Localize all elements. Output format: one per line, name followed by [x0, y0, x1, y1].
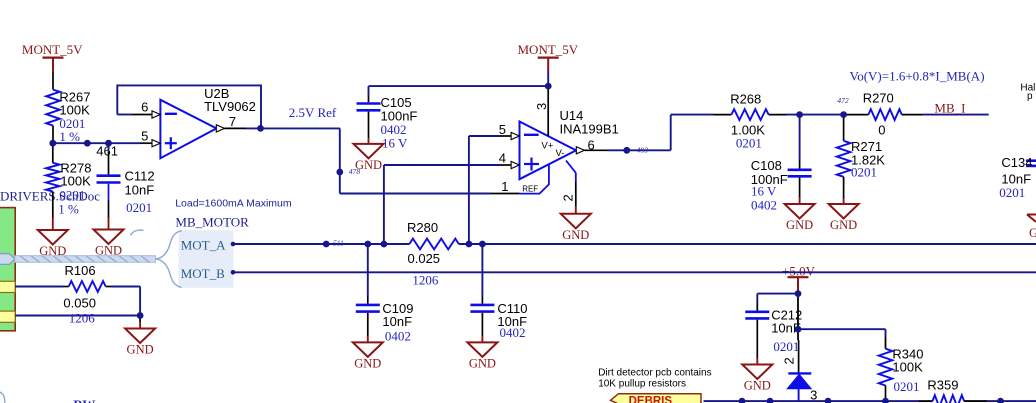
- svg-text:0402: 0402: [500, 325, 526, 340]
- junctions +5.0V net: [795, 290, 802, 332]
- svg-text:MONT_5V: MONT_5V: [518, 42, 579, 57]
- capacitor C112: [97, 143, 155, 229]
- port MOT_A (yellow sheet entry): [0, 281, 15, 292]
- junction C108 top: [796, 111, 803, 118]
- capacitor C134 (cut at edge): [999, 155, 1036, 200]
- ground (C109): [353, 342, 383, 370]
- resistor R271: [837, 115, 886, 204]
- svg-text:GND: GND: [354, 357, 381, 371]
- ground (U14 pin2): [561, 214, 591, 242]
- wire R106 network: [15, 287, 140, 316]
- ground (R278): [38, 230, 68, 258]
- svg-text:3: 3: [534, 103, 549, 110]
- svg-text:GND: GND: [39, 244, 66, 258]
- harness DEBRIS: [611, 394, 702, 403]
- svg-text:GND: GND: [95, 244, 122, 258]
- node 493: [623, 145, 648, 154]
- svg-text:GND: GND: [469, 357, 496, 371]
- junction MONT_5V rail: [545, 83, 552, 90]
- ground (R106): [125, 329, 155, 357]
- capacitor C105: [357, 95, 418, 150]
- svg-text:MB_MOTOR: MB_MOTOR: [175, 215, 249, 230]
- svg-text:1206: 1206: [412, 273, 439, 288]
- svg-text:INA199B1: INA199B1: [560, 122, 619, 137]
- svg-text:R268: R268: [730, 92, 761, 107]
- svg-text:GND: GND: [830, 218, 857, 232]
- wire U14 pin4 to R280 left: [384, 165, 501, 244]
- svg-text:2: 2: [781, 357, 796, 364]
- power port +5.0V: [782, 263, 816, 293]
- junctions bottom net: [739, 398, 1004, 403]
- svg-text:Load=1600mA Maximum: Load=1600mA Maximum: [175, 197, 292, 209]
- svg-text:R270: R270: [863, 90, 894, 105]
- wire 2.5V Ref: U2B out to U14 REF: [246, 128, 490, 193]
- node 511: [323, 239, 344, 248]
- harness connector (bottom-left, cut): [0, 392, 5, 403]
- svg-text:6: 6: [141, 100, 148, 115]
- ground (R271): [829, 204, 859, 232]
- svg-text:RW: RW: [73, 397, 95, 403]
- svg-text:Vo(V)=1.6+0.8*I_MB(A): Vo(V)=1.6+0.8*I_MB(A): [850, 69, 985, 84]
- resistor R268: [714, 92, 787, 151]
- svg-text:0.050: 0.050: [63, 296, 96, 311]
- svg-text:7: 7: [229, 114, 236, 129]
- svg-text:100K: 100K: [60, 173, 91, 188]
- svg-text:0201: 0201: [894, 379, 920, 394]
- node 478: [336, 167, 360, 176]
- op-amp U14 INA199B1: [520, 108, 619, 194]
- svg-text:DEBRIS: DEBRIS: [629, 396, 673, 403]
- wire +5.0V down to diode node: [797, 296, 799, 329]
- ground (C105): [354, 144, 384, 172]
- resistor R340: [879, 346, 924, 401]
- junctions MOT_A row: [364, 241, 485, 248]
- power port MONT_5V (right): [518, 42, 579, 86]
- net label MB_I: [934, 100, 965, 115]
- pin 3 U14: [534, 89, 549, 136]
- svg-text:R106: R106: [65, 263, 96, 278]
- ground (C134, cut): [1027, 215, 1036, 241]
- wire +5.0V to C212: [757, 294, 798, 303]
- pin 5 U2B: [141, 128, 161, 147]
- pin 6 U14 output: [576, 138, 607, 154]
- harness connector MB_MOTOR fan-out: [131, 230, 234, 288]
- svg-text:1: 1: [501, 179, 508, 194]
- svg-text:V+: V+: [541, 141, 553, 152]
- port MOT_B (yellow sheet entry): [0, 311, 15, 322]
- wire R267/R278 junction row to U2B pin5: [53, 142, 141, 144]
- svg-text:511: 511: [333, 239, 344, 248]
- net label 2.5V Ref: [289, 105, 337, 120]
- svg-text:0201: 0201: [851, 165, 877, 180]
- svg-text:6: 6: [588, 138, 595, 153]
- svg-text:100K: 100K: [892, 360, 923, 375]
- svg-text:3: 3: [810, 388, 817, 403]
- svg-text:C108: C108: [751, 158, 782, 173]
- svg-text:2: 2: [560, 194, 575, 201]
- resistor R278: [46, 143, 91, 230]
- svg-text:493: 493: [637, 145, 649, 154]
- svg-text:MOT_A: MOT_A: [181, 238, 226, 253]
- node 472: [837, 96, 849, 118]
- svg-text:MONT_5V: MONT_5V: [22, 42, 83, 57]
- net label MB_MOTOR: [175, 215, 249, 230]
- svg-text:C134: C134: [1001, 155, 1032, 170]
- bus MB_MOTOR (hatched): [15, 256, 156, 263]
- node 461: [96, 144, 118, 159]
- svg-text:0201: 0201: [126, 200, 152, 215]
- svg-text:R280: R280: [407, 220, 438, 235]
- svg-text:0201: 0201: [773, 339, 799, 354]
- wire MB_I from R270: [923, 114, 989, 116]
- ground (C212): [742, 365, 772, 393]
- capacitor C110: [470, 244, 527, 342]
- op-amp U2B TLV9062: [160, 86, 255, 158]
- svg-text:V-: V-: [556, 148, 565, 159]
- resistor R270: [845, 90, 923, 137]
- pin 7 U2B output: [216, 114, 246, 132]
- pin 4 U14: [499, 151, 520, 169]
- net label MOT_B: [181, 266, 236, 281]
- wire U14 pin5 to R280 right: [469, 136, 501, 244]
- annotation Vo formula: [850, 69, 985, 84]
- svg-text:1206: 1206: [69, 310, 96, 325]
- resistor R106: [63, 263, 140, 329]
- net label MOT_A: [181, 238, 236, 253]
- ground (C112): [94, 230, 124, 258]
- svg-text:GND: GND: [744, 379, 771, 393]
- svg-text:GND: GND: [786, 218, 813, 232]
- svg-text:16 V: 16 V: [751, 184, 777, 199]
- resistor R267: [46, 72, 90, 145]
- svg-text:5: 5: [141, 128, 148, 143]
- annotation Load: [175, 197, 292, 209]
- pin 2 U14 to ground: [560, 161, 575, 214]
- capacitor C108: [751, 115, 812, 213]
- wire bottom net: [704, 400, 1036, 402]
- svg-text:MB_I: MB_I: [934, 100, 965, 115]
- diode D (debris detector): [781, 340, 817, 403]
- svg-text:Dirt detector pcb contains: Dirt detector pcb contains: [598, 368, 711, 379]
- svg-text:REF: REF: [522, 184, 538, 193]
- svg-text:472: 472: [837, 96, 849, 105]
- wire node to R340: [798, 329, 886, 349]
- wire diode anode down: [797, 329, 799, 340]
- svg-text:0201: 0201: [59, 188, 85, 203]
- svg-text:MOT_B: MOT_B: [181, 266, 225, 281]
- svg-text:TLV9062: TLV9062: [204, 99, 256, 114]
- svg-text:GND: GND: [127, 343, 154, 357]
- svg-text:10nF: 10nF: [382, 314, 412, 329]
- svg-text:0402: 0402: [385, 328, 411, 343]
- ground (C110): [467, 342, 497, 370]
- svg-text:0402: 0402: [751, 198, 777, 213]
- svg-text:1 %: 1 %: [59, 129, 80, 144]
- wire R268 to R270 rail: [787, 114, 845, 116]
- pin 5 U14: [499, 122, 520, 140]
- sheet symbol DRIVERS.SchDoc: [0, 189, 100, 331]
- svg-text:G: G: [1029, 226, 1036, 240]
- svg-text:5: 5: [499, 122, 506, 137]
- svg-text:0.025: 0.025: [408, 251, 441, 266]
- power port MONT_5V (left): [22, 42, 83, 72]
- wire U2B feedback loop: [117, 85, 261, 128]
- svg-text:0201: 0201: [736, 135, 762, 150]
- junction dots row 461: [49, 140, 112, 147]
- svg-text:R359: R359: [927, 378, 958, 393]
- svg-text:2.5V Ref: 2.5V Ref: [289, 105, 337, 120]
- capacitor C212: [745, 303, 802, 365]
- capacitor C109: [356, 244, 414, 343]
- wire MOT_B: [233, 271, 1036, 273]
- svg-text:p: p: [1027, 91, 1033, 102]
- net label RW (cut): [73, 397, 95, 403]
- bus port MB_MOTOR (sheet entry): [0, 254, 15, 265]
- pin 1 U14 REF: [490, 179, 519, 194]
- annotation dirt detector: [598, 368, 711, 390]
- svg-text:C112: C112: [125, 169, 155, 184]
- resistor R359: [927, 378, 964, 403]
- annotation Hall pcb (cut): [1020, 83, 1035, 103]
- wire MOT_A: [233, 243, 1036, 245]
- pin 6 U2B: [132, 100, 161, 119]
- resistor R280: [407, 220, 459, 288]
- svg-text:10nF: 10nF: [125, 183, 155, 198]
- svg-text:478: 478: [349, 167, 361, 176]
- svg-text:GND: GND: [562, 228, 589, 242]
- wire U14 out to R268: [607, 115, 714, 151]
- junction R106: [137, 312, 144, 319]
- svg-text:4: 4: [499, 151, 506, 166]
- svg-text:0: 0: [878, 122, 885, 137]
- svg-text:1 %: 1 %: [58, 202, 79, 217]
- svg-text:0201: 0201: [999, 185, 1025, 200]
- junction U2B output: [257, 125, 264, 132]
- svg-text:10K pullup resistors: 10K pullup resistors: [598, 378, 686, 389]
- wire MONT_5V rail to C105 and U14 pin3: [369, 86, 549, 95]
- ground (C108): [785, 204, 815, 232]
